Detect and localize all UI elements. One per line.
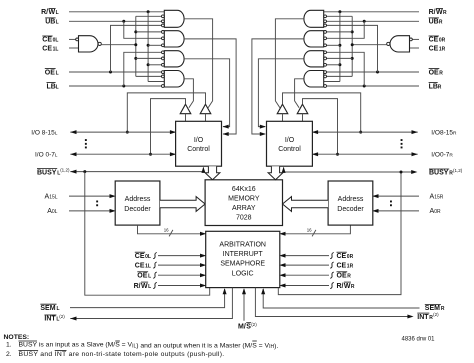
junction CE-R at NAND output [351,43,354,46]
svg-text:R/WL: R/WL [41,9,59,16]
junction B3 output on I/O 0-7R [336,153,339,156]
input bubble G7 [324,57,327,60]
AND gate G2 (left write-upper enable) [164,31,184,47]
ellipsis dots between right address lines [390,201,392,203]
wire B4 output to I/O 8-15R bus [283,93,361,132]
wire B2 input stub [205,114,207,122]
svg-text:CE0L: CE0L [42,37,58,44]
junction R/W-R at G7 input 3 [338,63,341,66]
wire BUSY-R down to arbitration logic [278,172,401,295]
svg-text:UBR: UBR [429,19,443,26]
wire G4 output to buffer B1 enable [184,79,194,108]
arrowhead R/W-R [279,284,285,288]
arrowhead I/O 0-7R out [412,152,418,156]
wire R/W-R into arbitration [281,285,329,287]
arrowhead left 16-bus into arbitration [200,232,206,236]
svg-text:LBR: LBR [429,83,442,90]
svg-text:Address: Address [125,196,151,203]
input bubble G1 [162,15,165,18]
arrowhead G3 into I/O control [223,125,229,129]
junction R/W-R branch [338,10,341,13]
svg-text:ARRAY: ARRAY [232,205,256,212]
svg-text:1.: 1. [6,342,12,349]
wire B1 input stub [185,114,187,122]
svg-text:MEMORY: MEMORY [228,196,260,203]
input bubble G2 [162,31,165,34]
svg-text:CE0L: CE0L [135,253,151,260]
wire UB-L to gate G1 input 3 [69,20,164,22]
arrowhead M/S into arbitration bottom [242,288,246,294]
arrowhead BUSY-R into I/O control bottom [282,167,286,173]
wire UB-R drop to G6 input 2 [327,21,365,38]
svg-text:4836 drw 01: 4836 drw 01 [402,337,436,343]
arrowhead right 16-bus into arbitration [279,232,285,236]
arrowhead INT-R out [407,315,413,319]
AND gate G1 (left read-upper enable) [164,10,184,27]
bus width slash left [169,230,173,237]
svg-text:R/WL: R/WL [134,283,152,290]
wire R/W-R to G8 input 3 (plain) [324,81,340,83]
arrowhead G2 into I/O control [223,132,229,136]
arrowhead G6 into I/O control [260,132,266,136]
svg-text:I/O8-15R: I/O8-15R [431,129,457,136]
svg-text:R/WR: R/WR [337,283,355,290]
wire R/W-L into arbitration [158,285,204,287]
squiggle OE-L [153,272,157,278]
svg-text:I/O: I/O [194,137,204,144]
wire G1 output to buffer B2 enable [184,19,213,108]
arrowhead CE0-R [279,254,285,258]
junction CE-L at G2 input 1 [134,30,137,33]
junction OE-R branch [376,71,379,74]
svg-text:Address: Address [338,196,364,203]
svg-text:Decoder: Decoder [337,206,364,213]
wire B1 output to I/O 0-7L bus [151,99,186,155]
svg-text:A15R: A15R [430,193,444,200]
svg-text:CE1R: CE1R [429,45,446,52]
wire SEM-L to arbitration [70,289,225,308]
input bubble U1 pin 1 [76,38,79,41]
svg-text:Decoder: Decoder [124,206,151,213]
arrowhead I/O 8-15R into I/O control [312,130,318,134]
svg-text:OEL: OEL [45,69,59,76]
wire B3 output to I/O 0-7R bus [303,99,338,155]
svg-text:LBL: LBL [47,83,59,90]
ellipsis dots between left I/O buses [85,139,87,141]
wire INT-R from arbitration [255,288,411,317]
wire CE-L to G3 input 2 [136,57,162,59]
wire CE1-R to NAND U2 input 2 [410,47,420,49]
wire OE-R into arbitration [281,274,329,276]
wire CE1-L to NAND U1 input 2 [69,47,79,49]
wire CE-R to G5 input 2 [327,15,353,17]
junction B2 output on I/O 8-15L [126,131,129,134]
input bubble G5 [324,24,327,27]
arrowhead CE0-L [200,254,206,258]
svg-text:A0R: A0R [430,208,441,215]
svg-text:BUSY and INT are non-tri-state: BUSY and INT are non-tri-state totem-pol… [19,351,225,358]
wire UB-R to gate G5 input 3 [324,20,419,22]
wire UB-L drop to G2 input 2 [124,21,162,38]
svg-text:16: 16 [307,228,312,233]
input bubble G4 [162,75,165,78]
squiggle CE0-L [153,253,157,259]
ellipsis dots between left address lines [96,201,98,203]
svg-text:R/WR: R/WR [429,9,447,16]
squiggle CE0-R [330,253,334,259]
AND gate G3 (left write-lower enable) [164,51,184,67]
arrowhead SEM-L into arbitration bottom [223,288,227,294]
junction R/W-L at G3 input 3 [147,63,150,66]
block left Address Decoder [115,181,160,225]
AND gate G4 (left read-lower enable) [164,71,184,88]
arrowhead I/O 8-15L into I/O control [170,130,176,134]
svg-text:UBL: UBL [45,19,58,26]
input bubble G6 [324,31,327,34]
arrowhead I/O 8-15R out [412,130,418,134]
svg-text:7028: 7028 [236,215,252,222]
wire CE-R vertical distribution [351,16,353,76]
wire OE-L into arbitration [158,274,204,276]
svg-text:NOTES:: NOTES: [4,334,30,341]
wire CE0-L to NAND U1 input 1 [69,38,76,40]
squiggle R/W-L [153,282,157,288]
bus wire left decoder to arbitration (16) [138,225,205,234]
AND gate G6 (right write-upper enable) [304,31,324,47]
arrowhead SEM-R into arbitration bottom [261,288,265,294]
wire CE0-L into arbitration [158,255,204,257]
arrowhead BUSY-R out [411,170,417,174]
tri-state buffer B3 (right lower byte) [297,104,308,114]
wire R/W-L vertical distribution [147,12,149,82]
wire INT-L from arbitration [70,288,232,319]
svg-text:CE0R: CE0R [337,253,354,260]
hollow bus arrow left decoder to memory [160,197,205,212]
input bubble G2 [162,37,165,40]
wire U2 output (CE-R internal) to CE vertical [352,44,387,46]
svg-text:I/O: I/O [285,137,295,144]
input bubble G1 [162,20,165,23]
NAND gate U2 (right chip-enable combine) [390,36,410,52]
input bubble G8 [324,85,327,88]
input bubble G7 [324,63,327,66]
wire G6 output to right I/O control pin [252,39,304,134]
input bubble G5 [324,15,327,18]
svg-text:Control: Control [278,146,301,153]
svg-text:CE0R: CE0R [429,37,446,44]
junction CE-R at G6 input 1 [351,30,354,33]
junction BUSY-R branch to arbitration [400,171,403,174]
wire I/O 8-15R bus [312,131,417,133]
wire U1 output (CE-L internal) to CE vertical [101,44,136,46]
junction LB-R branch [363,85,366,88]
arrowhead A15L into decoder [110,194,116,198]
arrowhead CE1-R [279,263,285,267]
wire CE1-R into arbitration [281,264,329,266]
input bubble G8 [324,71,327,74]
svg-text:2.: 2. [6,351,12,358]
hollow bus arrow right decoder to memory [283,197,329,212]
wire BUSY-R stub to I/O control bottom [283,168,285,173]
input bubble G3 [162,51,165,54]
AND gate G5 (right read-upper enable) [304,10,324,27]
arrowhead A0L into decoder [110,209,116,213]
input bubble G3 [162,57,165,60]
block arbitration interrupt semaphore logic [206,231,280,287]
hollow bus arrow left I/O control to memory [205,166,220,180]
wire A0R [373,210,419,212]
svg-text:OEL: OEL [137,273,151,280]
wire OE-L to gate G4 input 1 [69,71,162,73]
svg-text:INTERRUPT: INTERRUPT [223,251,264,258]
squiggle CE1-R [330,262,334,268]
svg-text:I/O 8-15L: I/O 8-15L [31,129,58,136]
wire R/W-R to G6 input 3 [327,44,340,46]
ellipsis dots between right I/O buses [401,139,403,141]
output bubble U1 [98,42,101,45]
input bubble G4 [162,85,165,88]
input bubble G6 [324,37,327,40]
wire I/O 0-7L bus [70,153,175,155]
input bubble G6 [324,44,327,47]
wire CE-R to G6 input 1 [327,31,353,33]
wire CE-L to G2 input 1 [136,31,162,33]
bus width slash right [312,230,316,237]
junction CE-R at G7 input 2 [351,57,354,60]
input bubble G3 [162,63,165,66]
wire CE-L to G1 input 2 [136,15,162,17]
wire CE0-R into arbitration [281,255,329,257]
svg-text:OER: OER [337,273,352,280]
svg-text:OER: OER [429,69,444,76]
wire R/W-L to G3 input 3 [148,64,161,66]
junction B4 output on I/O 8-15R [359,131,362,134]
block left I/O Control [176,121,222,166]
arrowhead CE1-L [200,263,206,267]
svg-text:I/O 0-7L: I/O 0-7L [35,151,58,158]
wire R/W-L to gate G1 input 1 [69,11,164,13]
wire G3 output to I/O control right-side pin [184,59,230,127]
svg-text:I/O0-7R: I/O0-7R [431,151,453,158]
svg-text:SEMAPHORE: SEMAPHORE [220,261,265,268]
output bubble U2 [387,42,390,45]
arrowhead INT-L out [70,317,76,321]
junction CE-L at G3 input 2 [134,57,137,60]
svg-text:A0L: A0L [47,208,57,215]
arrowhead A15R into decoder [372,194,378,198]
junction B1 output on I/O 0-7L [149,153,152,156]
wire R/W-R to G7 input 3 [327,64,340,66]
junction R/W-L branch [147,10,150,13]
wire M/S input [243,289,245,321]
squiggle CE1-L [153,262,157,268]
wire B4 input stub [282,114,284,122]
wire A15L [69,195,114,197]
junction R/W-R at G6 input 3 [338,44,341,47]
input bubble G8 [324,75,327,78]
AND gate G7 (right write-lower enable) [304,51,324,67]
wire A15R [373,195,419,197]
input bubble G1 [162,24,165,27]
bus wire right decoder to arbitration (16) [281,225,350,234]
wire B3 input stub [302,114,304,122]
block 64Kx16 memory array 7028 [205,180,282,226]
wire B2 output to I/O 8-15L bus [127,93,205,132]
wire OE-R vertical riser to G5 input 4 [327,25,378,72]
junction UB-L branch [122,20,125,23]
input bubble G5 [324,20,327,23]
svg-text:16: 16 [164,228,169,233]
wire OE-R to gate G8 input 1 [327,71,420,73]
wire SEM-R to arbitration [263,289,419,308]
wire CE0-R to NAND U2 input 1 [412,38,419,40]
squiggle R/W-R [330,282,334,288]
wire R/W-L to G2 input 3 [148,44,161,46]
junction OE-L branch [109,71,112,74]
wire G7 output to right I/O control pin [258,59,304,127]
svg-text:SEML: SEML [40,305,59,312]
NAND gate U1 (left chip-enable combine) [79,36,99,52]
wire G2 output to I/O control right-side pin [184,39,236,134]
wire BUSY-L down to arbitration logic [85,172,210,296]
arrowhead OE-R [279,273,285,277]
arrowhead BUSY-L out [70,170,76,174]
wire R/W-R vertical distribution [339,12,341,82]
svg-text:A15L: A15L [45,193,58,200]
wire A0L [69,210,114,212]
wire R/W-R to gate G5 input 1 [324,11,419,13]
arrowhead BUSY-L into I/O control bottom [201,167,205,173]
wire CE-L to G4 input 2 [136,75,162,77]
svg-text:ARBITRATION: ARBITRATION [219,242,266,249]
arrowhead I/O 0-7L out [70,152,76,156]
svg-text:Control: Control [187,146,210,153]
wire BUSY-R bus [284,171,416,173]
wire LB-L to gate G4 input 4 [69,85,162,87]
wire BUSY-L bus [70,168,203,172]
tri-state buffer B2 (left upper byte) [200,104,211,114]
svg-text:CE1R: CE1R [337,262,354,269]
block right Address Decoder [328,181,373,225]
hollow bus arrow right I/O control to memory [268,166,283,180]
wire G8 output to buffer B3 enable [295,79,305,108]
arrowhead R/W-L [200,284,206,288]
wire CE-R to G8 input 2 [327,75,353,77]
svg-text:64Kx16: 64Kx16 [232,186,256,193]
junction UB-R branch [363,20,366,23]
wire I/O 0-7R bus [312,153,417,155]
wire LB-L riser to G3 input 1 [124,52,162,86]
svg-text:SEMR: SEMR [425,305,445,312]
wire LB-R riser to G7 input 1 [327,52,365,86]
input bubble G2 [162,44,165,47]
svg-text:CE1L: CE1L [135,262,151,269]
tri-state buffer B4 (right upper byte) [277,104,288,114]
tri-state buffer B1 (left lower byte) [180,104,191,114]
wire CE-R to G7 input 2 [327,57,353,59]
wire CE1-L into arbitration [158,264,204,266]
block right I/O Control [267,121,313,166]
wire R/W-L to G4 input 3 (plain) [148,81,164,83]
arrowhead G7 into I/O control [260,125,266,129]
junction R/W-L at G2 input 3 [147,44,150,47]
junction BUSY-L branch to arbitration [83,170,86,173]
input bubble U2 pin 1 [410,38,413,41]
arrowhead I/O 0-7R into I/O control [312,152,318,156]
AND gate G8 (right read-lower enable) [304,71,324,88]
squiggle OE-R [330,272,334,278]
wire G5 output to buffer B4 enable [275,19,304,108]
arrowhead A0R into decoder [372,209,378,213]
arrowhead OE-L [200,273,206,277]
input bubble G4 [162,71,165,74]
arrowhead I/O 0-7L into I/O control [170,152,176,156]
junction LB-L branch [122,85,125,88]
arrowhead I/O 8-15L out [70,130,76,134]
wire I/O 8-15L bus [70,131,175,133]
wire LB-R to gate G8 input 4 [327,85,420,87]
wire OE-L vertical riser to G1 input 4 [111,25,162,72]
wire CE-L vertical distribution [135,16,137,76]
svg-text:CE1L: CE1L [42,45,58,52]
input bubble G7 [324,51,327,54]
junction CE-L at NAND output [134,43,137,46]
svg-text:LOGIC: LOGIC [232,270,254,277]
